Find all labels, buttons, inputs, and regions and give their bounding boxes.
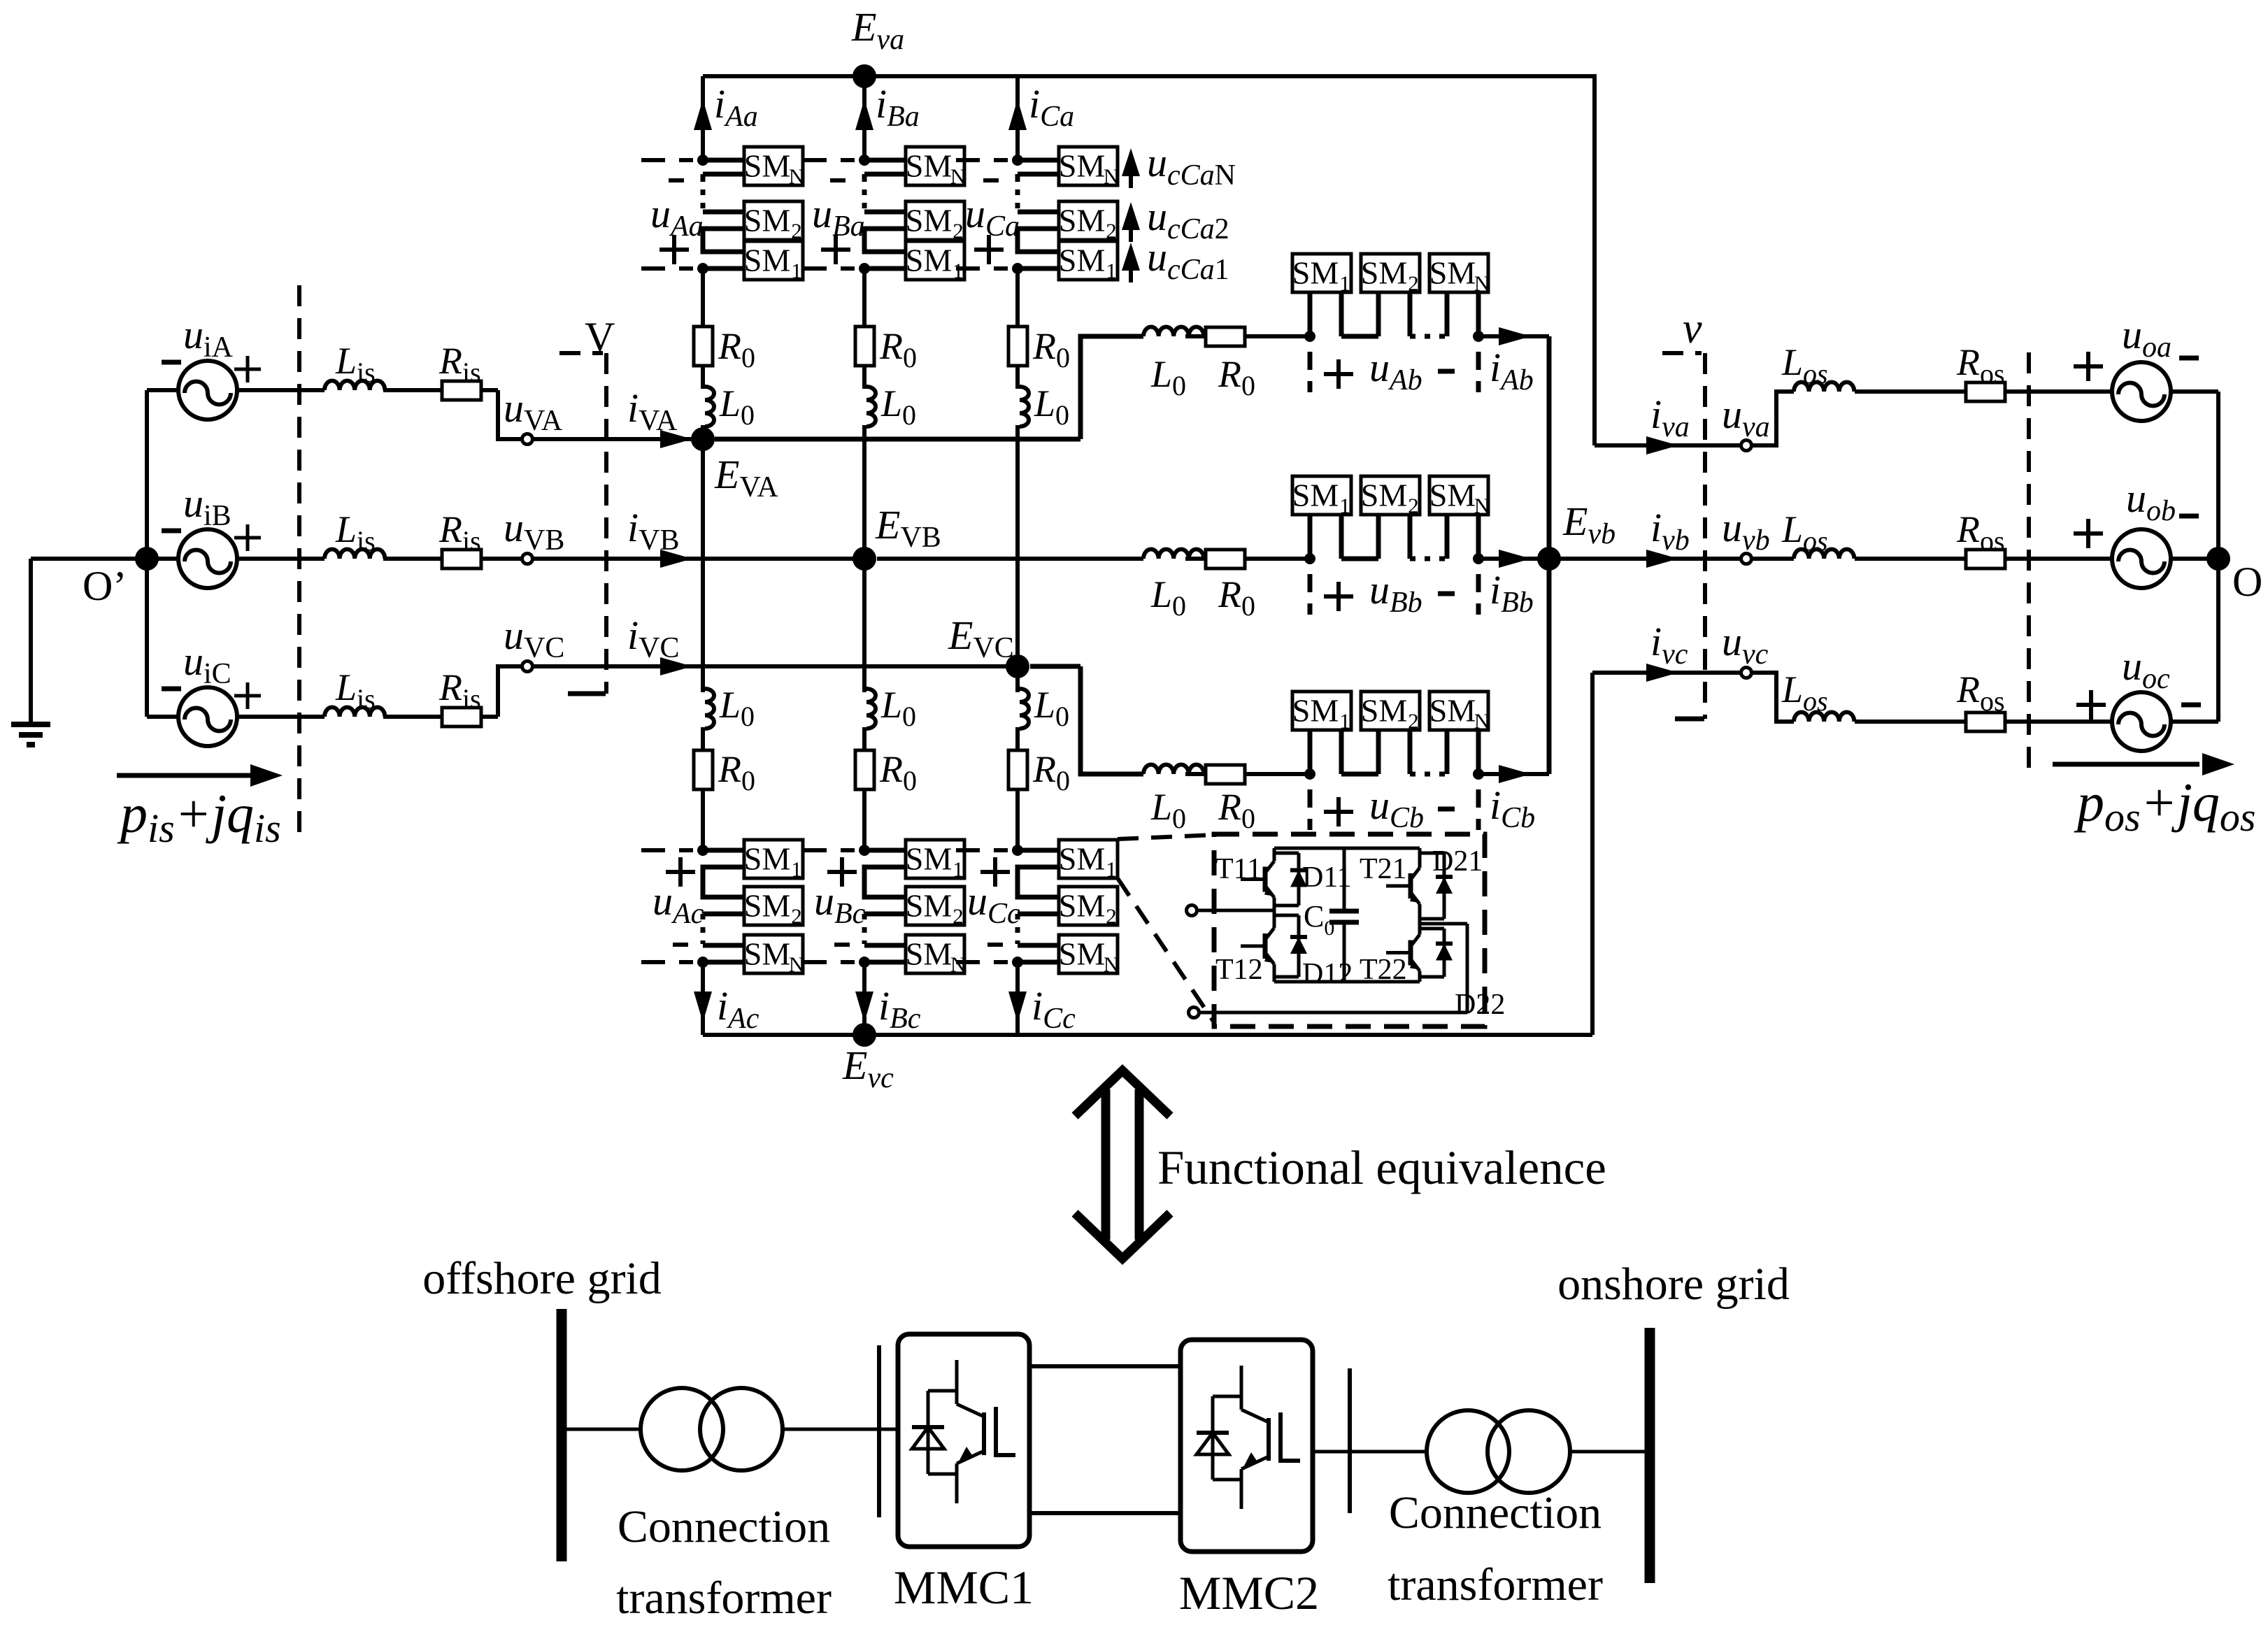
- node E_va: [851, 4, 904, 88]
- SM row arm Bb: [1292, 476, 1490, 518]
- svg-text:Connection: Connection: [1389, 1487, 1602, 1538]
- wire E_vb bus: [1547, 336, 1552, 774]
- resistor R_0 upper A: [694, 325, 755, 373]
- svg-text:T21: T21: [1360, 853, 1407, 885]
- inductor L_0 upper C: [1018, 364, 1069, 666]
- resistor R_0 arm Cb label: [1218, 786, 1255, 834]
- AC source u_iA: [147, 312, 324, 420]
- resistor R_os c: [1855, 668, 2112, 731]
- resistor R_0 lower A label: [718, 748, 755, 796]
- svg-text:2: 2: [1408, 709, 1419, 733]
- svg-text:SM: SM: [1292, 478, 1339, 513]
- svg-text:MMC1: MMC1: [894, 1561, 1034, 1614]
- wire jog phase C: [498, 666, 522, 717]
- inductor L_is phase C: [324, 666, 385, 717]
- transistor T21 / diode D21: [1386, 848, 1453, 924]
- svg-text:v: v: [1683, 305, 1702, 352]
- svg-text:SM: SM: [744, 888, 790, 924]
- svg-text:N: N: [789, 952, 804, 977]
- label Functional equivalence: [1157, 1141, 1606, 1194]
- port u_vc: [1722, 619, 1769, 678]
- svg-text:N: N: [950, 164, 966, 189]
- AC source u_oa: [2074, 312, 2218, 421]
- SM row arm Cb: [1292, 692, 1490, 733]
- label D11: [1302, 861, 1352, 894]
- wire top rail: [703, 74, 1595, 78]
- svg-text:N: N: [1104, 952, 1119, 977]
- resistor R_os b: [1855, 508, 2112, 568]
- SM stack upper arm B: [906, 147, 966, 283]
- node E_VA: [691, 427, 778, 503]
- node E_VC: [948, 613, 1029, 678]
- label i_Ac: [717, 983, 759, 1035]
- svg-text:SM: SM: [1292, 693, 1339, 729]
- resistor R_0 upper C: [1008, 325, 1070, 373]
- wire upper arm phase C bus: [956, 76, 1059, 329]
- svg-text:O: O: [2232, 559, 2262, 605]
- svg-text:SM: SM: [1059, 888, 1105, 924]
- label Connection transformer right: [1388, 1487, 1603, 1610]
- label p_os+jq_os: [2074, 772, 2255, 840]
- svg-text:T22: T22: [1360, 954, 1407, 986]
- wire transformer to MMC1: [783, 1428, 898, 1431]
- label i_Ba: [876, 81, 920, 133]
- inductor L_0 lower A label: [719, 684, 755, 732]
- svg-text:SM: SM: [1059, 148, 1105, 184]
- resistor R_os a: [1855, 341, 2112, 401]
- svg-text:transformer: transformer: [1388, 1559, 1603, 1610]
- transistor T22 / diode D22: [1386, 924, 1453, 982]
- svg-text:N: N: [789, 164, 804, 189]
- label i_Ca: [1029, 81, 1074, 133]
- label T21: [1360, 853, 1407, 885]
- label u_Ca: [965, 180, 1020, 264]
- SM row arm Ab: [1292, 254, 1490, 296]
- svg-text:SM: SM: [744, 203, 790, 238]
- label i_Aa: [714, 81, 758, 133]
- wire transformer to onshore bus: [1570, 1450, 1645, 1454]
- wire bus to transformer L: [566, 1428, 641, 1431]
- wire i_VA: [533, 385, 703, 448]
- boundary dashed line right: [2027, 352, 2031, 769]
- resistor R_0 lower B label: [879, 748, 917, 796]
- label Connection transformer left: [616, 1501, 832, 1624]
- wire upper arm phase B bus: [803, 76, 906, 329]
- svg-text:1: 1: [953, 857, 964, 882]
- arm Cb of MMC2: [1080, 666, 1549, 834]
- svg-text:2: 2: [953, 219, 964, 243]
- svg-text:D21: D21: [1432, 845, 1483, 878]
- wire DC link bottom: [1029, 1511, 1181, 1515]
- wire u_va jog: [1752, 392, 1794, 445]
- svg-text:SM: SM: [744, 148, 790, 184]
- svg-text:2: 2: [1408, 494, 1419, 518]
- inductor L_0 upper B: [864, 364, 916, 559]
- SM stack lower arm B: [906, 840, 966, 977]
- wire O' feeder: [31, 557, 147, 561]
- boundary dashed line left: [297, 285, 301, 832]
- zoom dashed lines: [1118, 835, 1214, 1022]
- label u_cCaN arrow: [1122, 140, 1236, 192]
- MMC1 box: [898, 1334, 1029, 1547]
- svg-text:SM: SM: [1059, 841, 1105, 877]
- svg-text:2: 2: [1106, 904, 1117, 929]
- inductor L_0 upper A: [703, 364, 755, 439]
- label u_Ac: [652, 857, 704, 945]
- node E_vb: [1537, 499, 1616, 571]
- double arrow functional equivalence: [1075, 1071, 1170, 1259]
- label u_cCa2 arrow: [1122, 194, 1229, 245]
- label i_Bc: [878, 983, 921, 1035]
- svg-text:SM: SM: [744, 841, 790, 877]
- label offshore grid: [422, 1253, 662, 1304]
- label T12: [1215, 954, 1263, 986]
- svg-text:T12: T12: [1215, 954, 1263, 986]
- port u_vb: [1722, 505, 1770, 564]
- AC source u_iC: [147, 638, 324, 746]
- inductor L_os b: [1752, 508, 1854, 559]
- ground: [11, 559, 50, 745]
- svg-text:SM: SM: [1292, 255, 1339, 291]
- label u_Aa: [650, 180, 704, 264]
- arrow p_os: [2053, 753, 2234, 775]
- label D12: [1302, 958, 1353, 990]
- svg-text:SM: SM: [1361, 255, 1407, 291]
- svg-text:2: 2: [791, 904, 802, 929]
- svg-text:D12: D12: [1302, 958, 1353, 990]
- svg-text:2: 2: [953, 904, 964, 929]
- resistor R_0 arm Ab label: [1218, 353, 1255, 401]
- svg-text:1: 1: [791, 259, 802, 283]
- SM stack lower arm A: [744, 840, 804, 977]
- svg-text:2: 2: [791, 219, 802, 243]
- port u_VC: [504, 613, 564, 672]
- port u_VB: [504, 505, 564, 564]
- offshore grid bus bar: [557, 1309, 567, 1561]
- svg-text:D11: D11: [1302, 861, 1352, 894]
- svg-text:N: N: [1104, 164, 1119, 189]
- label i_Cc: [1032, 983, 1076, 1035]
- svg-text:SM: SM: [744, 936, 790, 972]
- port u_VA: [504, 385, 563, 445]
- inductor L_0 lower B label: [880, 684, 916, 732]
- inductor L_0 arm Ab label: [1150, 353, 1186, 401]
- wire i_vb row: [1549, 505, 1741, 568]
- node O: [2206, 547, 2262, 605]
- svg-text:Connection: Connection: [618, 1501, 830, 1552]
- wire left bus: [145, 390, 149, 717]
- wire top-right corner: [1592, 74, 1597, 445]
- svg-text:2: 2: [1106, 219, 1117, 243]
- wire MMC2 to transformer R: [1313, 1450, 1427, 1454]
- svg-text:SM: SM: [906, 841, 952, 877]
- svg-text:T11: T11: [1215, 853, 1262, 885]
- wire i_va row: [1595, 392, 1741, 454]
- inductor L_0 arm Bb label: [1150, 573, 1186, 622]
- port u_va: [1722, 392, 1770, 451]
- svg-text:SM: SM: [1429, 478, 1476, 513]
- wire right bus: [2216, 392, 2220, 722]
- svg-text:2: 2: [1408, 271, 1419, 296]
- arrow p_is: [117, 764, 283, 787]
- svg-text:1: 1: [1106, 259, 1117, 283]
- measurement bracket v: [1662, 305, 1705, 719]
- svg-text:N: N: [1474, 271, 1490, 296]
- SM stack lower arm C: [1059, 840, 1119, 977]
- wire phase B to port: [498, 557, 522, 561]
- wire arm Cb feed: [1030, 664, 1080, 669]
- label u_Bc: [814, 857, 866, 945]
- svg-text:1: 1: [1339, 494, 1350, 518]
- arm Ab of MMC2: [1080, 292, 1549, 439]
- node E_VB: [853, 502, 941, 571]
- wire lower arm phase C: [956, 666, 1059, 1035]
- svg-text:1: 1: [791, 857, 802, 882]
- svg-text:transformer: transformer: [616, 1573, 832, 1624]
- label u_cCa1 arrow: [1122, 234, 1229, 286]
- AC source u_oc: [2076, 643, 2218, 751]
- resistor R_0 lower C label: [1032, 748, 1070, 796]
- resistor R_is phase C: [383, 666, 498, 726]
- wire i_VC: [533, 613, 1018, 675]
- measurement bracket V: [559, 314, 615, 694]
- svg-text:SM: SM: [744, 243, 790, 278]
- inductor L_os a: [1781, 341, 1854, 392]
- svg-text:1: 1: [1339, 709, 1350, 733]
- IGBT symbol MMC1: [912, 1360, 1015, 1503]
- wire bottom rail: [703, 1033, 1592, 1037]
- svg-text:SM: SM: [906, 203, 952, 238]
- bus tick left: [877, 1345, 881, 1517]
- svg-text:SM: SM: [906, 936, 952, 972]
- resistor R_0 arm Bb label: [1218, 573, 1255, 622]
- wire DC link top: [1029, 1364, 1181, 1368]
- label T11: [1215, 853, 1262, 885]
- svg-text:SM: SM: [1429, 255, 1476, 291]
- svg-text:O’: O’: [83, 563, 127, 609]
- IGBT symbol MMC2: [1197, 1366, 1300, 1509]
- svg-text:SM: SM: [906, 888, 952, 924]
- inductor L_is phase A: [324, 340, 385, 390]
- label onshore grid: [1557, 1259, 1790, 1310]
- svg-text:1: 1: [1339, 271, 1350, 296]
- label D21: [1432, 845, 1483, 878]
- wire arm Ab feed: [715, 437, 1080, 442]
- wire upper arm phase A bus: [641, 76, 744, 329]
- MMC2 box: [1181, 1340, 1313, 1552]
- capacitor C0: [1304, 899, 1359, 940]
- wire bottom-right vertical: [1590, 673, 1595, 1035]
- resistor R_0 upper B: [855, 325, 917, 373]
- arm Bb of MMC2: [877, 514, 1549, 619]
- svg-text:SM: SM: [1059, 936, 1105, 972]
- wire i_vc row: [1592, 619, 1741, 682]
- dashed inset box: [1214, 834, 1485, 1026]
- wire lower arm phase B: [803, 559, 906, 1035]
- node E_vc: [842, 1023, 894, 1094]
- onshore grid bus bar: [1645, 1328, 1655, 1583]
- transistor T11 / diode D11: [1241, 848, 1307, 910]
- svg-text:SM: SM: [1059, 203, 1105, 238]
- wire jog phase A: [498, 390, 522, 439]
- svg-text:SM: SM: [1059, 243, 1105, 278]
- submodule bridge wiring: [1187, 848, 1468, 1018]
- bus tick right: [1348, 1368, 1352, 1513]
- inductor L_os c: [1781, 668, 1854, 722]
- inductor L_0 arm Cb label: [1150, 786, 1186, 834]
- label p_is+jq_is: [117, 783, 281, 851]
- label u_Cc: [967, 857, 1020, 945]
- AC source u_iB: [147, 480, 324, 588]
- wire i_VB: [533, 505, 864, 568]
- svg-text:SM: SM: [1361, 693, 1407, 729]
- label T22: [1360, 954, 1407, 986]
- wire u_vc jog: [1752, 673, 1794, 722]
- label u_Ba: [812, 180, 865, 264]
- resistor R_is phase A: [383, 340, 498, 400]
- node O': [83, 547, 159, 609]
- label D22: [1455, 989, 1505, 1021]
- svg-text:V: V: [585, 314, 615, 360]
- inductor L_0 lower C label: [1034, 684, 1069, 732]
- svg-text:SM: SM: [906, 243, 952, 278]
- SM stack upper arm A: [744, 147, 804, 283]
- svg-text:onshore grid: onshore grid: [1557, 1259, 1790, 1310]
- svg-text:offshore grid: offshore grid: [422, 1253, 662, 1304]
- connection transformer left: [641, 1388, 783, 1470]
- svg-text:SM: SM: [906, 148, 952, 184]
- svg-text:N: N: [1474, 709, 1490, 733]
- connection transformer right: [1427, 1410, 1570, 1493]
- svg-text:N: N: [1474, 494, 1490, 518]
- svg-text:D22: D22: [1455, 989, 1505, 1021]
- label MMC1: [894, 1561, 1034, 1614]
- svg-text:Functional equivalence: Functional equivalence: [1157, 1141, 1606, 1194]
- wire lower arm phase A: [641, 439, 744, 1035]
- svg-text:SM: SM: [1429, 693, 1476, 729]
- svg-text:1: 1: [1106, 857, 1117, 882]
- transistor T12 / diode D12: [1241, 910, 1307, 982]
- AC source u_ob: [2074, 475, 2218, 588]
- inductor L_is phase B: [324, 508, 385, 559]
- SM stack upper arm C: [1059, 147, 1119, 283]
- resistor R_is phase B: [383, 508, 498, 568]
- svg-text:SM: SM: [1361, 478, 1407, 513]
- svg-text:MMC2: MMC2: [1179, 1566, 1319, 1619]
- label MMC2: [1179, 1566, 1319, 1619]
